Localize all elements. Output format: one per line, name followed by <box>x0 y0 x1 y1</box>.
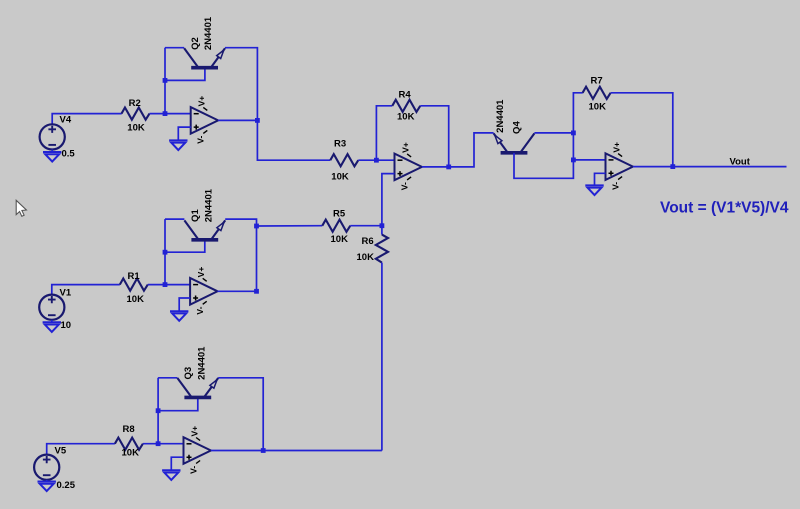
junction Q1 base wire <box>163 250 168 255</box>
junction U4 inverting input node <box>571 158 576 163</box>
wire U5 output <box>211 450 263 452</box>
voltage source V5 <box>34 455 59 480</box>
ground at U4 + input <box>585 185 603 195</box>
junction Q4 collector/R7 branch <box>571 131 576 136</box>
junction U4 output/R7 node <box>670 164 675 169</box>
svg-text:R4: R4 <box>399 90 412 101</box>
wire V1 to R1 <box>52 285 120 295</box>
wire Q3 base <box>158 398 198 410</box>
junction Q3 base wire <box>156 408 161 413</box>
svg-text:R3: R3 <box>334 138 346 149</box>
svg-text:2N4401: 2N4401 <box>495 99 506 133</box>
svg-text:V4: V4 <box>60 115 72 126</box>
svg-text:R7: R7 <box>591 75 603 86</box>
svg-text:0.5: 0.5 <box>62 149 76 160</box>
mouse cursor <box>16 200 26 216</box>
junction Q2 base wire <box>163 78 168 83</box>
svg-text:Q1: Q1 <box>190 209 201 222</box>
svg-text:10K: 10K <box>127 122 145 133</box>
svg-text:V+: V+ <box>197 96 207 107</box>
svg-text:V+: V+ <box>612 142 622 153</box>
wire R3 to op-amp U2 inverting input <box>358 159 394 161</box>
svg-text:10K: 10K <box>589 102 607 113</box>
resistor R4 <box>392 100 420 112</box>
svg-text:V+: V+ <box>190 426 200 437</box>
wire U5 noninverting input to ground <box>171 457 183 470</box>
wire Q4 collector to R7 node <box>534 132 573 134</box>
wire U2 output <box>422 166 449 168</box>
wire U2 output to Q4 emitter <box>449 133 494 167</box>
resistor R3 <box>330 154 358 166</box>
wire node to R6 top <box>381 226 383 235</box>
wire Q1 emitter to output node <box>225 219 256 291</box>
wire U1 output <box>218 119 257 121</box>
svg-text:V+: V+ <box>401 142 411 153</box>
junction R4 branch/U2 in- <box>374 158 379 163</box>
ground below V4 <box>43 152 61 162</box>
svg-text:V-: V- <box>196 136 206 144</box>
wire U4 noninverting input to ground <box>595 173 606 185</box>
junction node R1/Q1 base branch/U3 in- <box>163 282 168 287</box>
wire Q3 collector branch vertical <box>157 378 159 444</box>
op-amp U1 <box>191 96 218 144</box>
wire R7 left vertical <box>573 93 582 160</box>
resistor R5 <box>322 220 350 232</box>
wire Q2 base <box>165 68 205 80</box>
wire U2 noninverting input down to R5/R6 node <box>382 174 395 226</box>
svg-text:10K: 10K <box>127 294 145 305</box>
ground below V5 <box>38 482 56 492</box>
svg-text:Q3: Q3 <box>183 367 194 380</box>
svg-text:Vout = (V1*V5)/V4: Vout = (V1*V5)/V4 <box>660 199 789 216</box>
ground at U3 + input <box>170 311 188 321</box>
svg-text:2N4401: 2N4401 <box>203 188 214 222</box>
wire R8 to op-amp U5 inverting input <box>143 443 184 445</box>
svg-text:V1: V1 <box>60 288 72 299</box>
svg-text:R2: R2 <box>129 98 141 109</box>
ground below V1 <box>43 322 61 332</box>
svg-text:10K: 10K <box>357 252 375 263</box>
svg-text:V-: V- <box>400 182 410 190</box>
svg-text:V-: V- <box>189 466 199 474</box>
wire U4 output to Vout <box>633 166 787 168</box>
wire Q2 collector branch vertical <box>164 48 166 114</box>
transistor Q1 <box>184 220 225 239</box>
resistor R1 <box>120 279 148 291</box>
svg-text:10K: 10K <box>331 172 349 183</box>
svg-text:Q4: Q4 <box>512 121 523 134</box>
svg-text:V-: V- <box>195 306 205 314</box>
junction U5 output node <box>261 448 266 453</box>
svg-text:Q2: Q2 <box>190 37 201 50</box>
wire Q3 emitter to output node <box>218 378 263 451</box>
resistor R8 <box>115 438 143 450</box>
svg-text:10K: 10K <box>397 111 415 122</box>
wire Q3 collector horizontal <box>158 377 177 379</box>
svg-text:0.25: 0.25 <box>57 480 76 491</box>
junction node R8/Q3 base branch/U5 in- <box>156 441 161 446</box>
wire U1 noninverting input to ground <box>178 127 191 140</box>
svg-text:10K: 10K <box>331 234 349 245</box>
svg-text:2N4401: 2N4401 <box>196 346 207 380</box>
wire Q4 base loop <box>514 153 573 178</box>
wire R2 to op-amp U1 inverting input <box>150 113 191 115</box>
wire R4 right to U2 output node <box>420 106 448 167</box>
wire R1 to op-amp U3 inverting input <box>148 284 190 286</box>
wire U4 inverting input <box>573 159 605 161</box>
junction R5 tap on Q1 emitter wire <box>254 224 259 229</box>
svg-text:R1: R1 <box>128 271 141 282</box>
svg-text:R5: R5 <box>333 209 346 220</box>
junction U1 output node <box>255 118 260 123</box>
transistor Q3 <box>177 378 218 397</box>
voltage source V4 <box>40 124 65 149</box>
wire V4 bottom stub <box>51 150 53 153</box>
wire R5 to node <box>350 225 382 227</box>
svg-text:R8: R8 <box>123 424 135 435</box>
ground at U5 + input <box>162 470 180 480</box>
resistor R2 <box>122 108 150 120</box>
ground at U1 + input <box>169 140 187 150</box>
junction U3 output node <box>254 289 259 294</box>
svg-text:V-: V- <box>611 182 621 190</box>
junction U2 output node <box>446 165 451 170</box>
transistor Q2 <box>184 48 225 67</box>
resistor R6 <box>376 235 388 263</box>
junction node R2/Q2 base branch/U1 in- <box>163 111 168 116</box>
wire Q1 base <box>165 240 205 252</box>
svg-text:10K: 10K <box>122 447 140 458</box>
wire V1 bottom stub <box>51 320 53 323</box>
transistor Q4 <box>494 133 535 152</box>
wire Q1 collector branch vertical <box>164 219 166 285</box>
wire U5 output to R6 bottom <box>263 450 382 452</box>
wire U3 output <box>218 290 257 292</box>
svg-text:R6: R6 <box>362 236 374 247</box>
svg-text:10: 10 <box>61 320 72 331</box>
wire V5 to R8 <box>47 444 115 455</box>
svg-text:Vout: Vout <box>730 156 751 167</box>
svg-text:2N4401: 2N4401 <box>203 16 214 50</box>
op-amp U4 <box>606 142 633 190</box>
op-amp U5 <box>184 426 211 474</box>
wire R4 left vertical <box>376 106 392 160</box>
wire V5 bottom stub <box>46 480 48 482</box>
wire Q2 emitter to output node <box>225 48 257 121</box>
wire Q1 emitter tap to R5 <box>257 225 323 227</box>
voltage source V1 <box>39 295 64 320</box>
op-amp U2 <box>395 142 422 190</box>
wire Q2 collector horizontal <box>165 47 184 49</box>
resistor R7 <box>583 87 611 99</box>
svg-text:V5: V5 <box>55 446 67 457</box>
junction R5/R6/U2 in+ node <box>380 223 385 228</box>
wire Q1 collector horizontal <box>165 218 184 220</box>
wire R7 right to output node <box>611 93 673 167</box>
wire V4 to R2 <box>52 114 122 125</box>
svg-text:V+: V+ <box>196 267 206 278</box>
wire R6 bottom long vertical <box>381 263 383 451</box>
wire U3 noninverting input to ground <box>179 298 190 311</box>
wire U1 node down to R3 <box>257 120 330 160</box>
op-amp U3 <box>190 267 217 315</box>
